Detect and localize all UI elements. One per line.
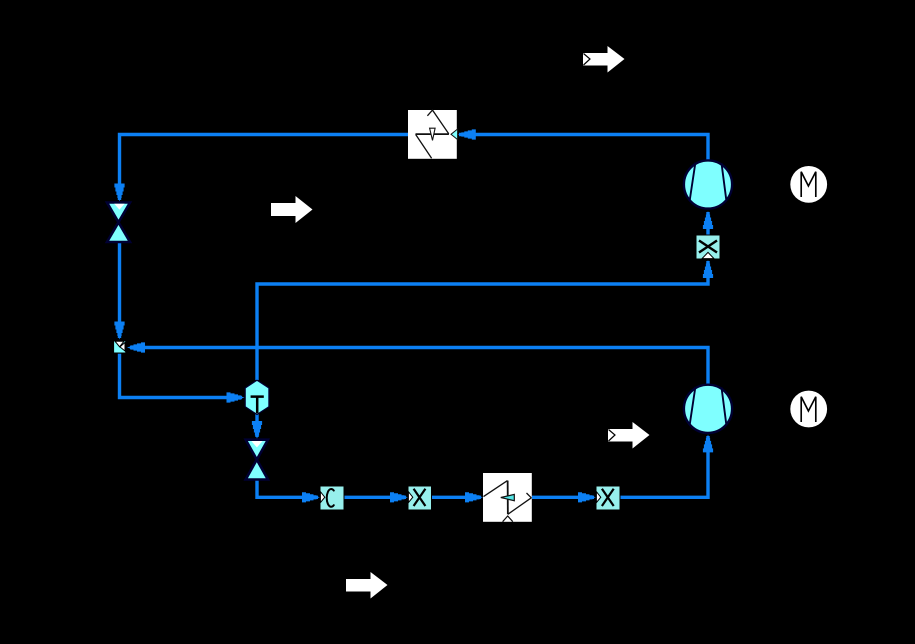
wire T top to suction valve X-high (257, 260, 713, 380)
wire X2 to compressor2 (620, 434, 713, 497)
compressor 2 (684, 385, 732, 433)
work arrow A2 (271, 196, 313, 223)
wire mixer bottom to intercooler T (120, 353, 245, 403)
intercooler tank T (245, 380, 269, 414)
wire condenser-out to expansion valve V1 (114, 135, 408, 202)
motor M2 (790, 391, 827, 428)
wire T bottom to expansion valve V2 (252, 414, 262, 439)
suction valve X-high (696, 235, 720, 259)
wire C to X1 (344, 492, 408, 502)
heat flow arrow A3 (into compressor region) (608, 422, 650, 449)
element X1 (408, 486, 432, 510)
element X2 (596, 486, 620, 510)
wire compressor2-out long return to mixer (127, 342, 708, 385)
element C (320, 486, 344, 510)
evaporator HX2 (483, 473, 532, 522)
heat flow arrow A1 (condenser heat out) (583, 46, 625, 73)
heat flow arrow A4 (evaporator heat in) (346, 572, 388, 599)
motor M1 (790, 166, 827, 203)
wire V1 to mixer top (114, 242, 124, 340)
condenser HX1 (408, 110, 458, 159)
mixer node (114, 341, 126, 354)
expansion valve V2 (246, 440, 268, 480)
expansion valve V1 (107, 203, 130, 243)
compressor 1 (684, 160, 732, 208)
wire X1 to evaporator (431, 492, 483, 502)
wire compressor1 to condenser (458, 129, 708, 160)
wire V2 to C element (257, 480, 320, 502)
wire X-high to compressor1 (703, 211, 713, 235)
wire evaporator to X2 (532, 492, 596, 502)
